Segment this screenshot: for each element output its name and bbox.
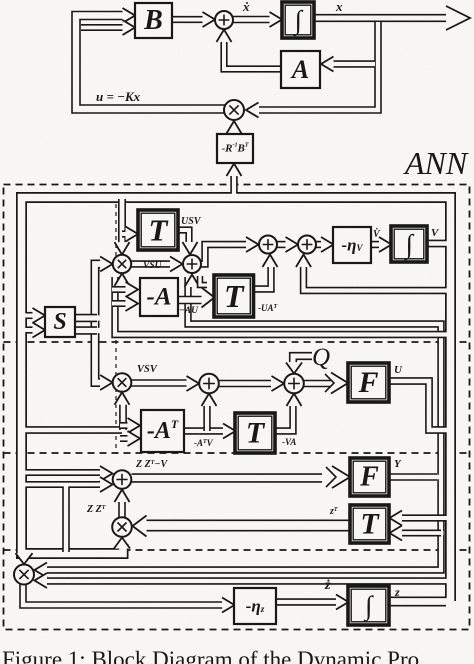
wire F1 output U to bus [389, 381, 446, 430]
arrowhead into T1 [126, 227, 139, 242]
wire integrator 3 output z to bus [389, 597, 446, 607]
block -R^-1 B^T [217, 134, 253, 163]
block A [281, 51, 320, 88]
arrowhead into B upper [123, 8, 136, 23]
arrowhead into -etaZ [222, 598, 235, 613]
block F1 [348, 363, 389, 402]
wire feedback to multiplier VSU and -A [115, 277, 445, 335]
sum junction 8 [284, 374, 304, 394]
integrator block 3 [348, 586, 389, 625]
arrowhead into plus junction 3 from below [185, 275, 200, 288]
wire x output [314, 14, 447, 22]
arrowhead into plus junction 4 [246, 237, 259, 252]
arrowhead into plus junction 8 [272, 376, 285, 391]
wire stub to -A input 2 [112, 300, 127, 307]
arrowhead into sum junction 1 [203, 12, 216, 27]
arrowhead into T4 input 1 [390, 511, 403, 526]
wire F2 output Y to right rail [389, 473, 437, 481]
arrowhead into F1 [331, 373, 348, 394]
wire left bus to plus 9 lower [27, 481, 103, 488]
integrator block 1 [282, 2, 314, 38]
multiplier junction B [14, 565, 34, 585]
wire right rail 2 with plus3 feedback [45, 277, 441, 570]
arrowhead into plus junction 8 from below [287, 394, 302, 407]
wire T1 output down to plus 3, signal USV [178, 230, 189, 243]
arrowhead chevron into F2 [326, 467, 336, 487]
dashed separator line 3 [4, 549, 470, 551]
arrowhead into multiplier VSU from below [115, 273, 130, 286]
arrowhead into plus 9 upper [100, 466, 113, 481]
arrowhead into multiplier 1 from below [227, 121, 242, 134]
sum junction 7 [199, 374, 219, 394]
block B [135, 3, 172, 38]
wire rail2 tap to T4 input 2 [401, 530, 441, 537]
arrowhead into -AT input 2 [128, 431, 141, 446]
sum junction 1 [215, 11, 233, 29]
wire -AT output to T3, signal -ATV [185, 427, 224, 434]
multiplier junction ZZT [112, 517, 132, 537]
arrowhead into S input 2 [33, 323, 46, 338]
block T3 [235, 413, 275, 453]
wire left bus tap to -AT row [27, 426, 123, 434]
wire RinvBT to multiplier [230, 133, 237, 134]
wire bus tap to S input 2 [27, 326, 34, 333]
sum junction 5 [298, 236, 316, 254]
wire plus 5 to -etaV [316, 241, 324, 248]
arrowhead into -A input 1 [126, 282, 139, 297]
multiplier junction 1 [224, 100, 244, 120]
arrowhead into multiplier B upper input [35, 563, 48, 578]
block -AT [141, 410, 184, 452]
block -etaV [333, 227, 371, 263]
wire main bus V loop [22, 198, 451, 602]
wire S output connector upper [75, 314, 97, 322]
multiplier junction VSU [113, 255, 131, 273]
wire feedback u to plant (left loop) [76, 16, 226, 110]
wire tap to T1 input [122, 230, 127, 237]
wire sum to integrator, signal xdot [233, 16, 271, 24]
arrowhead into A [321, 57, 334, 72]
wire A output feedback to sum [224, 41, 281, 69]
wire bus tap down to T1 and VSU multiplier [118, 199, 126, 246]
wire riser -ATV to plus 7 [203, 402, 210, 431]
arrowhead chevron into F1 [325, 374, 334, 392]
wire multiplier ZZT up to plus 9 [118, 500, 126, 517]
wire riser -AT row to multiplier VSV [119, 403, 127, 430]
wire x branch to A input [333, 60, 375, 67]
dashed separator line 2 [4, 452, 470, 454]
wire plus 8 to F1 [304, 380, 331, 388]
block S [45, 307, 75, 337]
sum junction 3 [183, 255, 201, 273]
block -etaZ [234, 588, 276, 624]
multiplier junction VSV [113, 373, 132, 392]
arrowhead into integrator 2 [379, 237, 392, 252]
wire VSU multiplier to plus 3 [132, 260, 172, 267]
sum junction 9 [113, 470, 132, 489]
wire -A output to T2, signal -AU [178, 296, 204, 305]
block T1 [138, 210, 178, 250]
arrowhead into plus junction 5 [286, 237, 299, 252]
wire -etaZ to integrator 3, signal zdot [276, 598, 336, 605]
wire V feedback from bus to plus 5 [304, 261, 447, 291]
wire bus tap to S input 1 [27, 312, 34, 319]
arrowhead into -AT input 1 [128, 418, 141, 433]
wire second input into B [81, 24, 128, 31]
block F2 [350, 458, 389, 496]
arrowhead into multiplier VSV from below [115, 392, 130, 405]
wire left bus to plus 9 upper [27, 469, 103, 476]
arrowhead into plus 9 from below [115, 490, 130, 503]
wire tap down to multiplier B [62, 488, 70, 552]
arrowhead bus into multiplier ZZT from below [114, 538, 130, 549]
arrowhead into multiplier ZZT [133, 516, 147, 537]
arrowhead into plus junction 3 [170, 257, 183, 272]
arrowhead into multiplier VSU from left [100, 257, 113, 272]
arrowhead into integrator 1 [270, 12, 283, 27]
wire S output riser [95, 264, 103, 383]
arrowhead Q into plus junction 8 [286, 363, 302, 374]
block T4 [350, 505, 389, 543]
wire plus 9 to F2 [132, 473, 323, 482]
wire plus 7 to plus 8 [219, 380, 271, 388]
block T2 [214, 275, 254, 317]
arrowhead into -A input 2 [126, 296, 139, 311]
wire bus tap to T4 input 1 [401, 514, 446, 521]
wire multiplier B output to -etaZ [23, 584, 223, 605]
wire -etaV to integrator 2, signal Vdot [371, 241, 382, 248]
arrowhead into plus junction 7 from below [202, 394, 217, 407]
wire T2 output up to plus 4, signal -UAT [254, 265, 272, 289]
arrowhead into integrator 3 [336, 595, 349, 610]
arrowhead into T3 [223, 424, 236, 439]
wire ANN output to RinvBT [230, 176, 237, 193]
wire T4 output to multiplier ZZT, signal zT [146, 520, 349, 532]
arrowhead into T2 input [202, 288, 215, 308]
arrowhead into plus junction 3 from above [183, 242, 198, 255]
arrowhead x output to right edge [446, 6, 470, 30]
arrowhead into plus junction 7 [187, 376, 200, 391]
integrator block 2 [391, 226, 427, 262]
sum junction 4 [259, 236, 277, 254]
arrowhead into plus junction 5 from below [296, 255, 311, 268]
arrowhead into B lower [123, 20, 136, 35]
block -A [140, 278, 178, 316]
wire plus 4 to plus 5 [277, 241, 288, 248]
ANN dashed boundary box [4, 185, 470, 630]
wire stub to -A input 1 [112, 286, 127, 293]
wire integrator 2 output V to bus [427, 240, 446, 248]
wire B to sum junction [172, 16, 204, 23]
arrowhead into multiplier B from above [16, 553, 33, 564]
arrowhead into F2 [332, 466, 350, 488]
arrowhead into -etaV [321, 237, 334, 252]
arrowhead into T4 input 2 [390, 526, 403, 541]
wire plus 3 output up to plus 4 [201, 245, 248, 265]
arrowhead into multiplier 1 from right [246, 103, 259, 118]
wire T3 output to plus 8, signal -VA [275, 403, 293, 431]
arrowhead into S input 1 [33, 308, 46, 323]
wire Q input hook [293, 356, 312, 362]
wire stub to -AT input 1 [120, 422, 128, 429]
dashed vertical wire [115, 196, 117, 453]
arrowhead into multiplier B lower [35, 573, 48, 588]
wire VSV multiplier to plus 7 [132, 379, 189, 387]
arrowhead into multiplier VSU from above [115, 242, 130, 255]
wire stub to -AT input 2 [120, 435, 128, 442]
arrowhead into multiplier VSV from left [100, 375, 113, 390]
wire S output connector lower [75, 326, 97, 334]
wire bus to multiplier B lower input [46, 577, 446, 584]
wire plus 3 branch hook to T2 [200, 276, 207, 285]
arrowhead into RinvBT block [227, 164, 242, 177]
arrowhead into plus 9 lower [100, 477, 113, 492]
arrowhead into sum junction 1 from below [217, 30, 232, 43]
arrowhead into plus junction 4 from below [263, 255, 278, 268]
dashed separator line 1 [4, 341, 470, 343]
wire x branch down [259, 22, 378, 110]
